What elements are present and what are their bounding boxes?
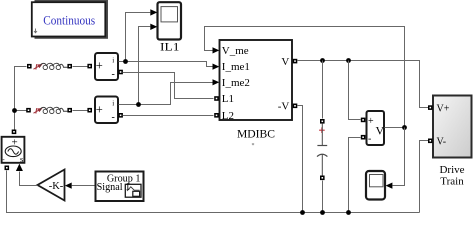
svg-text:i: i xyxy=(112,56,114,64)
wire V bus: MDIBC V output to Drive Train V+ xyxy=(298,61,429,108)
junction bottom bus / capacitor xyxy=(320,210,325,215)
inductor L1branch red polarity arrow xyxy=(34,64,42,69)
MDIBC input arrow V_me xyxy=(213,47,220,53)
scope IL1 input arrow 2 xyxy=(150,24,157,30)
gain input arrow xyxy=(65,183,72,189)
current measurement CM1 xyxy=(95,53,118,80)
current measurement CM2 xyxy=(95,97,118,124)
inductor L2branch red polarity arrow xyxy=(34,108,42,113)
junction V bus / voltage measurement xyxy=(346,58,351,63)
junction CM2 output xyxy=(136,102,141,107)
svg-text:V_me: V_me xyxy=(222,45,249,57)
svg-text:IL1: IL1 xyxy=(160,41,180,53)
svg-text:L2: L2 xyxy=(222,110,234,122)
svg-text:Train: Train xyxy=(440,176,464,188)
CM2 right - port xyxy=(118,113,123,118)
U_V port - xyxy=(361,135,366,140)
MDIBC input arrow I_me1 xyxy=(213,64,220,70)
wire inductor L1branch to CM1 xyxy=(73,66,88,68)
svg-text:V: V xyxy=(281,56,289,68)
controlled voltage source VS xyxy=(2,137,25,164)
svg-text:+: + xyxy=(96,58,103,72)
svg-text:+: + xyxy=(368,116,374,127)
subsystem MDIBC xyxy=(220,40,293,149)
junction CM1 output xyxy=(123,59,128,64)
powergui block "Continuous" U_powergui xyxy=(32,0,108,39)
wire voltage measurement - input from bottom bus xyxy=(349,138,361,213)
junction bottom bus / -V xyxy=(300,210,305,215)
gain -K- xyxy=(38,170,65,201)
inductor L1branch port A xyxy=(27,64,32,69)
U_V port + xyxy=(361,118,366,123)
wire CM1 output to scope IL1 input 1 xyxy=(126,13,151,62)
CM2 left + port xyxy=(87,108,92,113)
svg-text:L1: L1 xyxy=(222,93,234,105)
svg-text:I_me1: I_me1 xyxy=(222,61,250,73)
svg-text:*: * xyxy=(252,143,255,149)
inductor L2branch port B xyxy=(67,108,72,113)
scope2 (flipped scope) xyxy=(366,171,385,200)
svg-text:s: s xyxy=(20,154,23,164)
wire inductor L2branch to CM2 xyxy=(73,110,88,112)
svg-text:Signal 1: Signal 1 xyxy=(97,182,131,193)
MDIBC port V out xyxy=(293,59,298,64)
MDIBC port L2 xyxy=(214,113,219,118)
VS bottom port xyxy=(5,166,10,171)
inductor L2branch coil xyxy=(40,107,67,113)
svg-text:i: i xyxy=(112,99,114,107)
inductor L1branch coil xyxy=(40,63,67,69)
CM1 left + port xyxy=(87,64,92,69)
wire CM1 minus to MDIBC L1 xyxy=(123,73,214,99)
MDIBC port -V out xyxy=(293,104,298,109)
svg-text:-K-: -K- xyxy=(49,181,64,192)
scope IL1 xyxy=(158,2,182,53)
signal builder block Group 1 / Signal 1 xyxy=(96,172,144,202)
wire voltage measurement output xyxy=(385,127,405,129)
svg-text:-V: -V xyxy=(278,101,290,113)
MDIBC input arrow I_me2 xyxy=(213,79,220,85)
svg-text:-: - xyxy=(112,112,115,123)
svg-text:V-: V- xyxy=(437,137,447,148)
svg-text:Continuous: Continuous xyxy=(43,12,95,27)
scope IL1 input arrow 1 xyxy=(150,9,157,15)
capacitor C port bottom xyxy=(320,176,325,181)
Drive Train port V- xyxy=(428,139,433,144)
wire left bus: source top port up to inductor rows xyxy=(15,67,27,132)
svg-text:MDIBC: MDIBC xyxy=(237,126,275,140)
scope2 input arrow xyxy=(386,183,393,189)
voltage measurement U_V xyxy=(367,111,385,145)
subsystem Drive Train xyxy=(433,96,472,188)
Drive Train port V+ xyxy=(428,105,433,110)
wire to scope2 xyxy=(393,128,405,186)
junction V bus / capacitor xyxy=(320,58,325,63)
VS top port xyxy=(12,130,17,135)
svg-text:-: - xyxy=(368,134,371,145)
wire gain output to VS s input xyxy=(20,172,38,186)
inductor L2branch port A xyxy=(26,108,31,113)
junction left bus / row2 xyxy=(12,108,17,113)
capacitor C port top xyxy=(320,119,325,124)
capacitor C symbol xyxy=(317,124,327,176)
wire stub to inductor row 2 xyxy=(15,110,27,112)
wire signal builder to gain xyxy=(72,185,97,187)
wire CM2 minus to MDIBC L2 xyxy=(123,115,214,117)
junction voltage measurement output xyxy=(402,125,407,130)
CM1 right - port xyxy=(118,70,123,75)
wire -V output down to bottom bus xyxy=(298,106,303,213)
svg-text:I_me2: I_me2 xyxy=(222,77,250,89)
capacitor C branch wire top xyxy=(322,61,324,119)
wire CM1 i-output to MDIBC I_me1 xyxy=(119,62,214,67)
svg-text:V: V xyxy=(376,124,385,138)
wire Drive Train V- to bottom bus xyxy=(420,141,429,213)
svg-text:V+: V+ xyxy=(437,103,450,114)
wire CM2 output to scope IL1 input 2 xyxy=(139,27,151,105)
inductor L1branch port B xyxy=(67,64,72,69)
capacitor C red polarity plus xyxy=(319,127,325,133)
capacitor C branch wire bottom xyxy=(322,181,324,213)
VS s-input arrow xyxy=(16,164,23,171)
MDIBC port L1 xyxy=(214,96,219,101)
wire feedback V measurement to MDIBC V_me xyxy=(205,27,405,128)
wire CM2 i-output to MDIBC I_me2 xyxy=(119,83,214,105)
junction bottom bus / voltage measurement minus xyxy=(346,210,351,215)
wire voltage measurement + input xyxy=(349,61,361,120)
svg-text:-: - xyxy=(112,69,115,80)
svg-text:Drive: Drive xyxy=(439,164,464,176)
wire bottom bus xyxy=(7,171,420,213)
svg-text:+: + xyxy=(96,102,103,116)
